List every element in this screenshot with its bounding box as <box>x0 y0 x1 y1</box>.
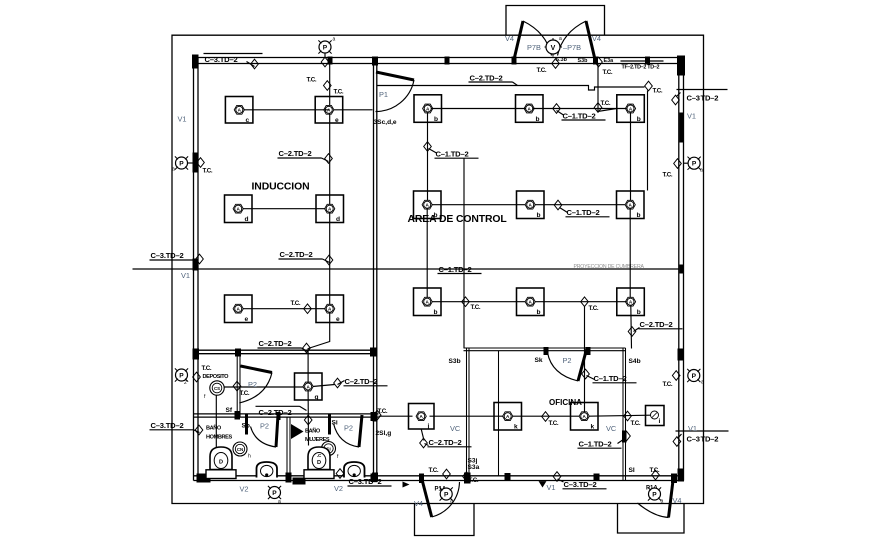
svg-text:BAÑO: BAÑO <box>305 428 321 435</box>
svg-text:S4b: S4b <box>629 358 641 365</box>
toilet left bath <box>210 447 232 470</box>
svg-text:C–2.TD–2: C–2.TD–2 <box>259 339 292 348</box>
svg-text:V1: V1 <box>547 483 556 492</box>
column right wall bottom <box>678 469 685 482</box>
svg-text:V4: V4 <box>673 496 682 505</box>
junction diamond row2 b5-b6 <box>554 200 562 210</box>
svg-text:Sb: Sb <box>242 423 250 430</box>
outer building boundary <box>172 35 704 503</box>
svg-text:T.C.: T.C. <box>603 69 613 76</box>
column left wall bottom <box>197 474 211 483</box>
bottom right tab <box>618 504 685 534</box>
column bath divider bottom <box>286 473 292 483</box>
svg-text:DEPOSITO: DEPOSITO <box>203 374 230 380</box>
column bottom wall x593 <box>594 474 600 482</box>
svg-text:b: b <box>637 212 641 219</box>
junction diamond row3 b7-b8 <box>462 297 470 307</box>
svg-text:C–1.TD–2: C–1.TD–2 <box>579 440 612 449</box>
lamp box b4 row2 <box>414 191 442 219</box>
sink right bath <box>344 462 365 478</box>
svg-text:PROYECCION DE CUMBRERA: PROYECCION DE CUMBRERA <box>574 264 645 270</box>
column partition bath bottom <box>372 473 378 482</box>
junction diamond office right wall <box>623 431 631 441</box>
svg-text:T.C.: T.C. <box>307 77 317 84</box>
svg-text:T.C.: T.C. <box>601 100 611 107</box>
svg-text:C–3.TD–2: C–3.TD–2 <box>151 421 184 430</box>
column bottom wall office-left <box>464 473 471 484</box>
svg-text:i: i <box>659 418 661 425</box>
svg-text:T.C.: T.C. <box>334 89 344 96</box>
svg-text:C–2.TD–2: C–2.TD–2 <box>640 320 673 329</box>
svg-text:k: k <box>591 424 595 431</box>
column top-left corner <box>192 55 199 69</box>
svg-text:S.3b: S.3b <box>556 57 568 63</box>
svg-text:C–3.TD–2: C–3.TD–2 <box>349 477 382 486</box>
svg-text:T.C.: T.C. <box>537 67 547 74</box>
SECTION: doors <box>239 21 681 518</box>
door P2 office leaf <box>578 350 587 382</box>
svg-text:HOMBRES: HOMBRES <box>206 435 232 441</box>
svg-text:C–3: C–3 <box>687 435 700 444</box>
wire riser x427 b4-b7 <box>426 209 428 298</box>
SECTION: fixtures <box>204 381 365 479</box>
column top wall door post right <box>593 57 598 65</box>
svg-text:b: b <box>637 309 641 316</box>
svg-text:C–2.TD–2: C–2.TD–2 <box>470 74 503 83</box>
SECTION: bubbles <box>172 36 704 505</box>
svg-text:MUJERES: MUJERES <box>305 437 330 443</box>
column top wall x447 <box>445 57 450 65</box>
column bath wall x236 <box>235 411 241 420</box>
junction diamond bottom wall v2 <box>336 469 344 479</box>
svg-text:V2: V2 <box>334 484 343 493</box>
junction diamond riser x330 mid <box>325 154 333 164</box>
svg-text:S3b: S3b <box>449 358 461 365</box>
column top wall door post left <box>512 57 517 65</box>
svg-text:C–1.TD–2: C–1.TD–2 <box>594 374 627 383</box>
door P1 swing arc <box>376 80 415 112</box>
column bottom wall x504 <box>505 473 511 481</box>
junction diamond row3 b8-b9 <box>581 297 589 307</box>
door V4 top right arc <box>558 21 587 56</box>
lamp box b5 row2 <box>517 191 545 219</box>
svg-text:S3b: S3b <box>578 58 589 64</box>
svg-text:C–2.TD–2: C–2.TD–2 <box>345 377 378 386</box>
office top wall <box>464 347 626 349</box>
wire riser x630 b3-b6 <box>630 113 632 201</box>
bathroom divider wall <box>286 417 288 481</box>
svg-text:C–1.TD–2: C–1.TD–2 <box>436 150 469 159</box>
svg-text:OFICINA: OFICINA <box>549 398 582 407</box>
junction diamond row1 b2-b3 <box>553 104 561 114</box>
wire j to k1 <box>430 415 504 417</box>
junction diamond k1-k2 <box>542 412 550 422</box>
door V4 bottom left arc <box>432 482 460 517</box>
junction diamond bottom wall si <box>652 470 660 480</box>
wire row3 b8-b9 <box>535 301 627 303</box>
svg-text:b: b <box>536 116 540 123</box>
svg-text:BAÑO: BAÑO <box>206 425 222 432</box>
door P2 right bath leaf <box>359 415 362 447</box>
junction diamond bottom wall s3a <box>463 472 471 482</box>
svg-text:CN: CN <box>237 447 243 452</box>
svg-text:D: D <box>317 460 321 466</box>
svg-text:b: b <box>537 212 541 219</box>
junction diamond bath wall right <box>373 410 381 420</box>
column bottom wall x371 <box>371 474 378 483</box>
svg-text:C–2.TD–2: C–2.TD–2 <box>429 438 462 447</box>
svg-text:INDUCCION: INDUCCION <box>252 181 310 192</box>
column left wall p1 <box>193 153 199 173</box>
svg-text:b: b <box>637 116 641 123</box>
svg-text:SI: SI <box>629 467 635 474</box>
svg-text:V1: V1 <box>178 115 187 124</box>
door P2 left bath leaf <box>276 415 278 447</box>
lamp box k2 <box>571 403 599 431</box>
junction diamond riser x427 <box>424 142 432 152</box>
svg-text:a: a <box>701 380 704 386</box>
svg-text:Si: Si <box>332 420 338 427</box>
junction diamond x584 office <box>582 369 590 379</box>
column bath wall x278 <box>277 412 281 420</box>
door P2 office arc <box>548 353 579 382</box>
wire riser e2 to g <box>308 313 330 383</box>
svg-text:a: a <box>278 499 281 505</box>
junction diamond bottom wall tc1 <box>443 469 451 479</box>
wire riser e to d2 <box>329 114 331 205</box>
svg-text:V2: V2 <box>240 485 249 494</box>
svg-text:P2: P2 <box>260 422 269 431</box>
SECTION: leader labels <box>150 54 719 490</box>
door P2 deposito arc <box>239 373 272 404</box>
door V4 top left arc <box>523 21 552 56</box>
office interior partition <box>498 351 500 476</box>
wire cs down <box>215 395 217 450</box>
junction diamond deposito wall <box>233 381 241 391</box>
door V4 bottom right arc <box>638 503 669 518</box>
svg-text:T.C.: T.C. <box>291 300 301 307</box>
svg-text:3Sc,d,e: 3Sc,d,e <box>374 119 397 126</box>
wire k2-i <box>589 415 651 416</box>
wire row2 d1-d2 <box>243 208 326 210</box>
deposito partition wall <box>236 354 238 417</box>
svg-text:d: d <box>245 216 249 223</box>
svg-text:TF–2.TD–2 TD–2: TF–2.TD–2 TD–2 <box>622 65 660 71</box>
junction diamond riser x330 low <box>325 255 333 265</box>
svg-text:T.C.: T.C. <box>589 305 599 312</box>
svg-text:C–3: C–3 <box>687 94 700 103</box>
svg-text:TD–2: TD–2 <box>701 94 719 103</box>
SECTION: room names <box>178 112 698 494</box>
right wall <box>678 58 680 481</box>
junction diamond x597 <box>594 103 602 113</box>
svg-text:Sk: Sk <box>535 357 543 364</box>
svg-text:a: a <box>700 168 703 174</box>
lamp box b3 row1 <box>617 95 645 123</box>
SECTION: switches <box>226 57 641 474</box>
lamp box b8 row3 <box>517 288 545 316</box>
svg-text:C–1.TD–2: C–1.TD–2 <box>563 112 596 121</box>
door P2 deposito leaf <box>241 366 273 373</box>
lamp box d2 row2 <box>316 195 344 223</box>
svg-text:b: b <box>434 309 438 316</box>
column top-right corner <box>677 56 685 76</box>
wire g to right leader <box>313 385 335 387</box>
junction diamond bottom wall center <box>553 472 561 482</box>
right upper reference line <box>677 89 728 91</box>
svg-text:j: j <box>427 423 430 430</box>
bathroom top wall <box>194 413 379 415</box>
bottom left tab <box>415 504 475 536</box>
marker triangle bottom wall center <box>539 481 547 487</box>
top vestibule tab <box>506 6 605 36</box>
lamp box d1 row2 <box>225 195 253 223</box>
svg-text:V4: V4 <box>505 34 514 43</box>
junction diamond riser x330 top <box>324 81 332 91</box>
svg-text:C–1.TD–2: C–1.TD–2 <box>439 265 472 274</box>
wire row3 e1-e2 <box>243 308 326 310</box>
column door post bottom right <box>671 474 677 484</box>
svg-text:e: e <box>245 316 249 323</box>
svg-text:VC: VC <box>450 424 461 433</box>
wire riser x630 b6-b9 <box>629 209 631 298</box>
svg-text:TD–2: TD–2 <box>701 435 719 444</box>
door V4 top left leaf <box>514 21 523 60</box>
svg-text:T.C.: T.C. <box>240 390 250 397</box>
column right wall lower <box>678 349 684 361</box>
outlet box i <box>646 406 665 426</box>
wire row3 b7-b8 <box>432 301 526 303</box>
column right wall mid <box>680 265 685 274</box>
svg-text:C–3.TD–2: C–3.TD–2 <box>151 251 184 260</box>
top wall <box>194 57 684 59</box>
door V4 bottom left leaf <box>423 482 432 518</box>
svg-text:b: b <box>537 309 541 316</box>
ridge projection line <box>133 268 679 270</box>
column office top-left post <box>544 347 549 355</box>
svg-text:V1: V1 <box>181 271 190 280</box>
svg-text:T.C.: T.C. <box>429 467 439 474</box>
marker triangle bottom wall left <box>403 482 410 488</box>
door V4 top right leaf <box>586 21 595 60</box>
door P1 leaf <box>376 72 414 80</box>
SECTION: tc labels <box>202 67 673 484</box>
junction diamond left wall p1 <box>197 158 205 168</box>
SECTION: wires <box>193 57 682 481</box>
svg-text:D: D <box>219 460 223 466</box>
svg-text:T.C.: T.C. <box>378 408 388 415</box>
lamp box e1 row3 <box>225 295 253 323</box>
svg-text:T.C.: T.C. <box>653 88 663 95</box>
wire drop x463 to office <box>463 158 465 348</box>
junction diamond top bubble <box>321 57 329 67</box>
wire riser b9 to S4b <box>630 306 633 349</box>
junction diamond left wall deposito <box>193 372 201 382</box>
svg-text:P1: P1 <box>379 90 388 99</box>
wire office left to j <box>379 415 413 417</box>
svg-text:h: h <box>248 454 251 460</box>
wire k1-k2 <box>513 415 580 417</box>
junction diamond top wall left <box>251 59 259 69</box>
wire row1 c-e <box>244 109 330 111</box>
svg-text:a: a <box>661 499 664 505</box>
svg-text:V1: V1 <box>688 424 697 433</box>
detector CI right bath <box>322 442 336 456</box>
door P2 right bath arc <box>334 424 360 448</box>
svg-text:c: c <box>246 117 250 124</box>
svg-text:T.C.: T.C. <box>650 467 660 474</box>
svg-text:a: a <box>333 37 336 43</box>
SECTION: walls <box>192 55 685 488</box>
keynote bubble P right lower <box>687 369 700 382</box>
svg-text:b: b <box>434 116 438 123</box>
svg-text:g: g <box>315 394 319 401</box>
wire row1 b2-b3 <box>533 108 627 110</box>
partition wall induccion/control <box>373 64 375 481</box>
svg-text:C–3.TD–2: C–3.TD–2 <box>205 55 238 64</box>
svg-text:V4: V4 <box>414 499 423 508</box>
column top wall x330 <box>328 57 333 65</box>
wire drop x597 <box>598 64 617 112</box>
svg-text:d: d <box>336 216 340 223</box>
junction diamond right wall p <box>674 159 682 169</box>
column left wall mid <box>193 259 199 271</box>
svg-text:V: V <box>551 45 556 52</box>
vestibule bubble V <box>546 40 560 54</box>
svg-text:C–3.TD–2: C–3.TD–2 <box>564 480 597 489</box>
svg-text:k: k <box>514 424 518 431</box>
svg-text:T.C.: T.C. <box>549 420 559 427</box>
induccion bottom wall <box>194 349 377 351</box>
corridor wire y85 <box>377 86 645 91</box>
svg-text:a: a <box>450 499 453 505</box>
junction diamond g leader <box>334 378 342 388</box>
toilet right bath <box>308 447 330 470</box>
wire row2 b5-b6 <box>535 204 626 206</box>
sink left bath <box>257 462 278 478</box>
keynote bubble P right upper <box>688 157 701 170</box>
svg-text:T.C.: T.C. <box>202 365 212 372</box>
wire row1 e-wall <box>334 109 373 111</box>
column left wall deposito <box>193 349 200 360</box>
right lower reference line <box>676 430 729 432</box>
svg-text:C–1.TD–2: C–1.TD–2 <box>567 208 600 217</box>
junction diamond row3 left <box>304 304 312 314</box>
wire g to bathroom <box>307 391 309 446</box>
svg-text:VC: VC <box>606 424 617 433</box>
svg-text:e: e <box>335 117 339 124</box>
wire j drop <box>421 429 424 441</box>
keynote bubble P left lower <box>175 368 188 381</box>
column bottom wall x292 <box>293 478 306 485</box>
svg-text:C–2.TD–2: C–2.TD–2 <box>279 149 312 158</box>
svg-text:T.C.: T.C. <box>203 168 213 175</box>
svg-text:CS: CS <box>214 386 220 391</box>
lamp box j <box>409 404 435 430</box>
wire drop x584 to office k2 <box>584 306 586 412</box>
junction diamond k2-i <box>624 411 632 421</box>
keynote bubble P bottom left <box>268 486 281 499</box>
wire riser d2 to e2 <box>329 213 331 305</box>
toilet stall partition left bath <box>245 414 248 435</box>
svg-text:T.C.: T.C. <box>663 172 673 179</box>
svg-text:a: a <box>559 36 562 42</box>
svg-text:T.C.: T.C. <box>663 381 673 388</box>
svg-text:2: 2 <box>184 380 187 386</box>
office left wall <box>466 348 468 481</box>
svg-text:–P7B: –P7B <box>563 43 581 52</box>
svg-text:P2: P2 <box>563 356 572 365</box>
lamp box b9 row3 <box>617 288 645 316</box>
toilet stall partition right bath <box>328 414 331 435</box>
svg-text:C–2.TD–2: C–2.TD–2 <box>259 408 292 417</box>
lamp box b6 row2 <box>617 191 645 219</box>
column bath wall right end <box>371 412 378 421</box>
junction diamond right wall bottom <box>673 437 681 447</box>
wire riser x427 b1-b4 <box>427 113 429 201</box>
column office right wall blob <box>622 431 627 443</box>
svg-text:.C: .C <box>317 453 322 458</box>
svg-text:V1: V1 <box>687 112 696 121</box>
wall arrow marker bath divider <box>291 424 304 439</box>
column induccion wall right <box>370 348 377 357</box>
svg-text:C–2.TD–2: C–2.TD–2 <box>280 250 313 259</box>
junction diamond left wall mid <box>196 254 204 264</box>
SECTION: outer boundary <box>172 6 704 536</box>
lamp box b7 row3 <box>414 288 442 316</box>
junction diamond top wall x598 <box>595 57 603 67</box>
column partition bottom <box>373 413 378 422</box>
svg-text:S3a: S3a <box>468 464 480 471</box>
office right wall <box>622 348 624 481</box>
lamp box e row1 <box>315 97 343 124</box>
junction diamond bath wall x307 <box>304 415 312 425</box>
column door post bottom left <box>419 474 424 484</box>
wire drop x647 <box>647 91 649 191</box>
wire row1 b1-b2 <box>432 108 526 110</box>
detector CN left bath <box>233 442 247 456</box>
lamp box b2 row1 <box>516 95 544 123</box>
column induccion wall x238 <box>235 349 241 357</box>
svg-text:P7B: P7B <box>527 43 541 52</box>
junction diamond corridor right <box>645 81 653 91</box>
wire deposito cs to g <box>225 386 304 388</box>
keynote bubble P top <box>318 40 331 53</box>
svg-text:2Sl,g: 2Sl,g <box>376 430 392 437</box>
svg-text:a: a <box>172 167 175 173</box>
column top wall partition <box>372 57 378 66</box>
detector CS deposito <box>210 381 224 395</box>
column right wall upper <box>680 113 685 143</box>
svg-text:P2: P2 <box>344 424 353 433</box>
column top wall x647 <box>645 57 650 65</box>
junction diamond riser g <box>303 343 311 353</box>
svg-text:E3a: E3a <box>604 58 615 64</box>
svg-text:V4: V4 <box>592 34 601 43</box>
door V4 bottom right leaf <box>669 481 674 518</box>
junction diamond riser b9 <box>628 327 636 337</box>
svg-text:T.C.: T.C. <box>631 420 641 427</box>
svg-text:T.C.: T.C. <box>469 477 479 484</box>
svg-text:e: e <box>336 316 340 323</box>
svg-text:Sf: Sf <box>226 407 233 414</box>
junction diamond right wall lower p <box>672 371 680 381</box>
lamp box e2 row3 <box>316 295 344 323</box>
lamp box c row1 <box>225 97 253 124</box>
junction diamond left wall bottom <box>195 425 203 435</box>
keynote bubble P left upper <box>175 156 188 169</box>
svg-text:T.C.: T.C. <box>471 304 481 311</box>
